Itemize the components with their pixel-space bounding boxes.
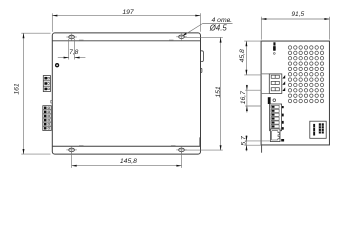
svg-text:151: 151 [215, 86, 222, 98]
RJ45 jack [270, 129, 280, 142]
svg-text:16,7: 16,7 [240, 91, 247, 104]
DIN clip tab below side view [261, 145, 263, 153]
dimension 145,8 [72, 152, 182, 168]
dimension 161 [21, 33, 50, 154]
left connector block B (6-pos) [43, 106, 51, 131]
svg-text:7,8: 7,8 [69, 49, 78, 56]
svg-text:145,8: 145,8 [120, 158, 137, 165]
svg-text:5,7: 5,7 [240, 136, 247, 146]
tab above left block B [51, 100, 53, 103]
right side tab small [200, 68, 202, 72]
svg-text:161: 161 [13, 83, 20, 95]
body step notch bottom-right [199, 138, 201, 147]
ground screw donut [55, 63, 59, 67]
side view outline [261, 41, 329, 145]
switch indicator circle [273, 53, 275, 55]
dimension 91,5 [261, 17, 329, 40]
left connector block A (3-pos) [43, 76, 50, 92]
side terminal block (3-pos) [262, 74, 282, 94]
label plate [310, 121, 326, 138]
terminal clamp wedge 2 [282, 81, 285, 85]
flange tab dash bottom-right [171, 144, 176, 146]
slot hole top-left [66, 34, 77, 41]
svg-text:45,8: 45,8 [239, 49, 246, 62]
dimension 5,7 [245, 135, 271, 151]
flange tab dash bottom-left [79, 144, 84, 146]
terminal clamp wedge 3 [282, 88, 285, 92]
DIP side ticks [282, 106, 284, 130]
toggle switch side [273, 42, 275, 45]
top flange lower edge [52, 40, 200, 42]
RJ45 side marks [281, 127, 283, 129]
slot hole bottom-right [176, 147, 187, 154]
trim pot [268, 97, 270, 104]
svg-text:91,5: 91,5 [291, 11, 304, 18]
dimension 151 [185, 37, 223, 150]
dimension 7,8 [58, 39, 86, 60]
mounting plate outline (front view) [52, 33, 200, 154]
hole callout leader 4 otv [183, 24, 233, 36]
right side tab large [200, 51, 203, 62]
bottom flange upper edge [52, 145, 200, 147]
slot hole top-right [176, 33, 187, 40]
dimension 16,7 [245, 85, 261, 113]
label text bars [313, 124, 315, 136]
vent hole grid [288, 46, 323, 103]
side DIP switch block [270, 104, 282, 131]
terminal clamp wedge 1 [282, 75, 285, 79]
svg-text:197: 197 [122, 9, 134, 16]
flange tab dash top-left [79, 39, 84, 41]
led ring [273, 99, 276, 102]
flange tab dash top-right [169, 39, 174, 41]
slot hole bottom-left [66, 147, 77, 154]
dimension 45,8 [244, 41, 261, 75]
svg-text:Ø4.5: Ø4.5 [209, 23, 228, 32]
dimension 197 [52, 13, 200, 32]
